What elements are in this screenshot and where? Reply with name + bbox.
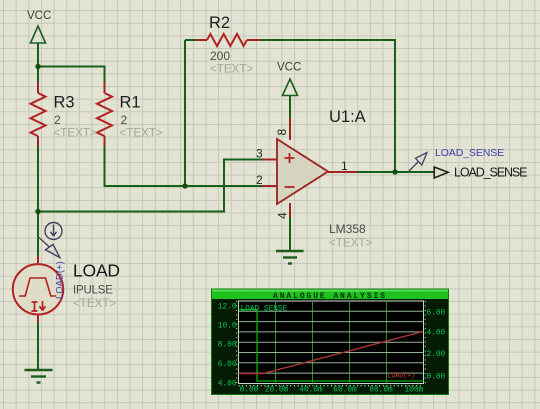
svg-text:R2: R2	[209, 14, 230, 32]
svg-text:2.00: 2.00	[427, 351, 446, 359]
svg-text:80.0m: 80.0m	[369, 387, 393, 395]
svg-text:LM358: LM358	[329, 222, 366, 236]
svg-text:<TEXT>: <TEXT>	[120, 127, 163, 140]
svg-text:LOAD: LOAD	[73, 261, 120, 281]
svg-text:0.00: 0.00	[427, 374, 446, 382]
svg-text:100m: 100m	[405, 387, 424, 395]
svg-text:<TEXT>: <TEXT>	[73, 297, 116, 310]
svg-text:2: 2	[256, 173, 263, 187]
svg-text:1: 1	[341, 159, 348, 173]
svg-text:8: 8	[275, 129, 289, 136]
svg-text:VCC: VCC	[277, 62, 301, 74]
svg-text:20.0m: 20.0m	[265, 387, 289, 395]
svg-text:6.00: 6.00	[218, 361, 237, 369]
svg-text:200: 200	[210, 49, 230, 63]
svg-text:LOAD_SENSE: LOAD_SENSE	[435, 147, 504, 159]
svg-text:LOAD(+): LOAD(+)	[55, 261, 66, 299]
svg-text:LOAD(+): LOAD(+)	[388, 373, 415, 381]
svg-text:60.0m: 60.0m	[333, 387, 357, 395]
svg-text:6.00: 6.00	[427, 310, 446, 318]
svg-text:8.00: 8.00	[218, 342, 237, 350]
svg-text:<TEXT>: <TEXT>	[54, 127, 97, 140]
svg-text:R3: R3	[54, 94, 75, 112]
svg-text:2: 2	[54, 113, 61, 127]
svg-text:R1: R1	[120, 94, 141, 112]
svg-text:ANALOGUE ANALYSIS: ANALOGUE ANALYSIS	[273, 292, 387, 301]
svg-text:LOAD_SENSE: LOAD_SENSE	[454, 166, 527, 180]
svg-text:3: 3	[256, 147, 263, 161]
svg-text:4.00: 4.00	[427, 330, 446, 338]
svg-text:4: 4	[276, 212, 290, 219]
svg-text:VCC: VCC	[27, 10, 51, 22]
svg-text:0.00: 0.00	[240, 387, 259, 395]
svg-text:U1:A: U1:A	[329, 108, 366, 126]
svg-text:4.00: 4.00	[218, 381, 237, 389]
svg-text:<TEXT>: <TEXT>	[210, 63, 253, 76]
svg-text:2: 2	[121, 113, 128, 127]
svg-text:10.0: 10.0	[218, 323, 237, 331]
svg-text:<TEXT>: <TEXT>	[329, 237, 372, 250]
svg-text:40.0m: 40.0m	[299, 387, 323, 395]
svg-text:12.0: 12.0	[218, 304, 237, 312]
svg-text:LOAD_SENSE: LOAD_SENSE	[241, 306, 288, 314]
svg-text:IPULSE: IPULSE	[73, 285, 113, 297]
